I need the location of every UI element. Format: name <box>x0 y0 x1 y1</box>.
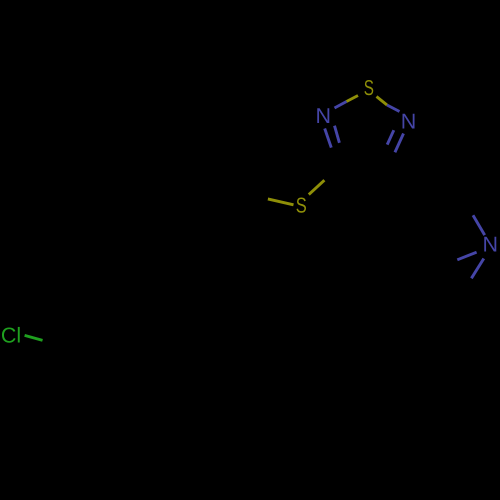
svg-text:Cl: Cl <box>1 324 21 348</box>
svg-text:S: S <box>296 194 307 218</box>
bond S1-N1 (thiadiazole, S half) <box>347 96 359 102</box>
svg-text:N: N <box>401 110 417 134</box>
svg-text:N: N <box>316 104 332 128</box>
bond C3-S2 thioether (C half, black) <box>324 168 337 181</box>
bond C3-S2 thioether (S half) <box>309 180 325 194</box>
double bond N1=C3 main line (N half) <box>325 129 332 148</box>
bond Cl-C (Cl half) <box>25 335 43 340</box>
bond N3-C up (N half, quinuclidine) <box>473 215 485 235</box>
bond S1-N1 (thiadiazole, N half) <box>335 102 347 109</box>
bond S2-CH2 (C half, black) <box>243 194 268 199</box>
bond N3-C down (N half, quinuclidine) <box>471 259 483 279</box>
bond S2-CH2 (S half) <box>268 199 294 205</box>
bond S1-N2 (thiadiazole, N half) <box>387 105 400 112</box>
bond N3-C left (N half, quinuclidine) <box>457 252 476 260</box>
double bond N2=C4 inner line (N half) <box>387 130 394 144</box>
double bond N2=C4 main line (N half) <box>395 134 404 153</box>
bond Cl-C (C half, black) <box>43 340 60 345</box>
double bond N2=C4 main line (C half, black) <box>387 152 395 171</box>
svg-text:N: N <box>483 233 499 257</box>
bond S1-N2 (thiadiazole, S half) <box>377 97 388 106</box>
double bond N1=C3 main line (C half, black) <box>331 148 338 167</box>
double bond N1=C3 inner line (N half) <box>335 126 340 143</box>
svg-text:S: S <box>364 76 374 100</box>
